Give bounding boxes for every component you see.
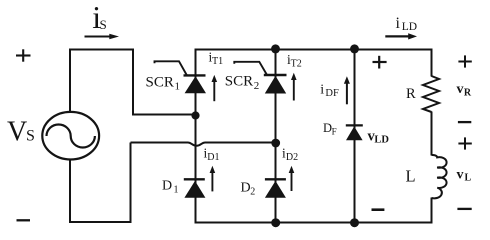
arrow iLD: [385, 33, 417, 39]
node dot bottom bus D2: [271, 218, 280, 227]
diode D2: [265, 179, 286, 197]
svg-text:L: L: [406, 167, 416, 186]
svg-text:D: D: [162, 179, 172, 194]
SCR U2 (SCR2): [234, 62, 286, 94]
arrow iD2: [289, 166, 295, 191]
arrow iD1: [210, 166, 216, 192]
wire SCR1/D1 branch vertical: [195, 50, 197, 223]
wire B with crossover dip: [131, 143, 276, 146]
plus vL: [458, 137, 471, 149]
arrow iS: [85, 34, 120, 40]
svg-text:T2: T2: [291, 58, 302, 69]
svg-text:R: R: [464, 87, 472, 98]
svg-text:1: 1: [175, 81, 181, 93]
svg-text:D1: D1: [207, 152, 219, 163]
minus vLD: [372, 208, 385, 211]
svg-text:DF: DF: [325, 88, 339, 99]
svg-text:i: i: [396, 15, 401, 32]
wire SCR2/D2 branch vertical: [275, 50, 277, 224]
node dot top bus SCR2: [271, 44, 280, 53]
wire jog up at x=130.5: [130, 143, 132, 224]
wire load branch middle: [431, 112, 433, 156]
svg-text:D: D: [241, 181, 251, 196]
svg-text:D2: D2: [286, 152, 298, 163]
node dot SCR1 cathode / source: [191, 111, 199, 119]
svg-text:S: S: [100, 17, 107, 32]
svg-text:F: F: [332, 126, 337, 136]
ac source VS: [42, 112, 99, 160]
wire top-left horizontal: [69, 49, 134, 51]
wire jog down at x=133: [132, 49, 134, 115]
diode D1: [184, 179, 206, 198]
inductor L: [432, 155, 447, 198]
freewheel diode DF: [346, 125, 363, 140]
plus vLD: [373, 56, 387, 69]
svg-text:V: V: [7, 117, 27, 148]
svg-text:L: L: [465, 173, 472, 184]
svg-text:2: 2: [250, 186, 255, 197]
arrow iT2: [291, 73, 297, 101]
svg-text:SCR: SCR: [225, 73, 253, 89]
svg-text:1: 1: [174, 184, 179, 195]
svg-text:2: 2: [254, 80, 259, 92]
node dot SCR2 cathode / D2 / source: [271, 139, 280, 148]
arrow iDF: [344, 76, 350, 104]
SCR U1 (SCR1): [155, 61, 207, 93]
minus vL: [457, 208, 471, 210]
node dot top bus DF: [350, 44, 359, 53]
minus source: [17, 219, 31, 221]
arrow iT1: [212, 75, 218, 101]
wire bottom-left horizontal: [69, 221, 132, 223]
svg-text:i: i: [320, 83, 324, 98]
svg-text:v: v: [457, 82, 464, 97]
wire DF branch vertical: [354, 50, 356, 224]
svg-text:S: S: [26, 128, 35, 145]
wire load branch bottom: [431, 198, 433, 224]
svg-text:LD: LD: [374, 135, 389, 146]
node dot bottom bus DF: [350, 218, 359, 227]
svg-text:v: v: [457, 167, 464, 182]
svg-text:LD: LD: [402, 21, 417, 33]
wire load branch top: [431, 49, 433, 77]
wire source top vertical: [69, 50, 71, 113]
svg-text:R: R: [406, 86, 416, 102]
wire source bottom vertical: [69, 159, 71, 222]
plus vR: [458, 55, 471, 67]
resistor R: [423, 76, 439, 112]
plus source: [16, 49, 31, 61]
wire top bus: [195, 49, 433, 51]
minus vR: [458, 121, 471, 123]
wire bottom bus: [195, 222, 433, 224]
svg-text:T1: T1: [212, 56, 223, 67]
wire A to SCR1 cathode node: [132, 114, 196, 116]
svg-text:SCR: SCR: [146, 74, 174, 90]
